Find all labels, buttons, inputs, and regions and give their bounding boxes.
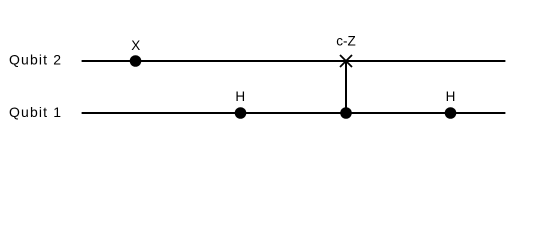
svg-text:c-Z: c-Z xyxy=(336,33,356,48)
svg-text:Qubit 1: Qubit 1 xyxy=(9,104,62,120)
svg-text:X: X xyxy=(131,38,140,53)
svg-text:H: H xyxy=(235,89,245,104)
svg-text:Qubit 2: Qubit 2 xyxy=(9,52,62,68)
svg-text:H: H xyxy=(446,89,456,104)
